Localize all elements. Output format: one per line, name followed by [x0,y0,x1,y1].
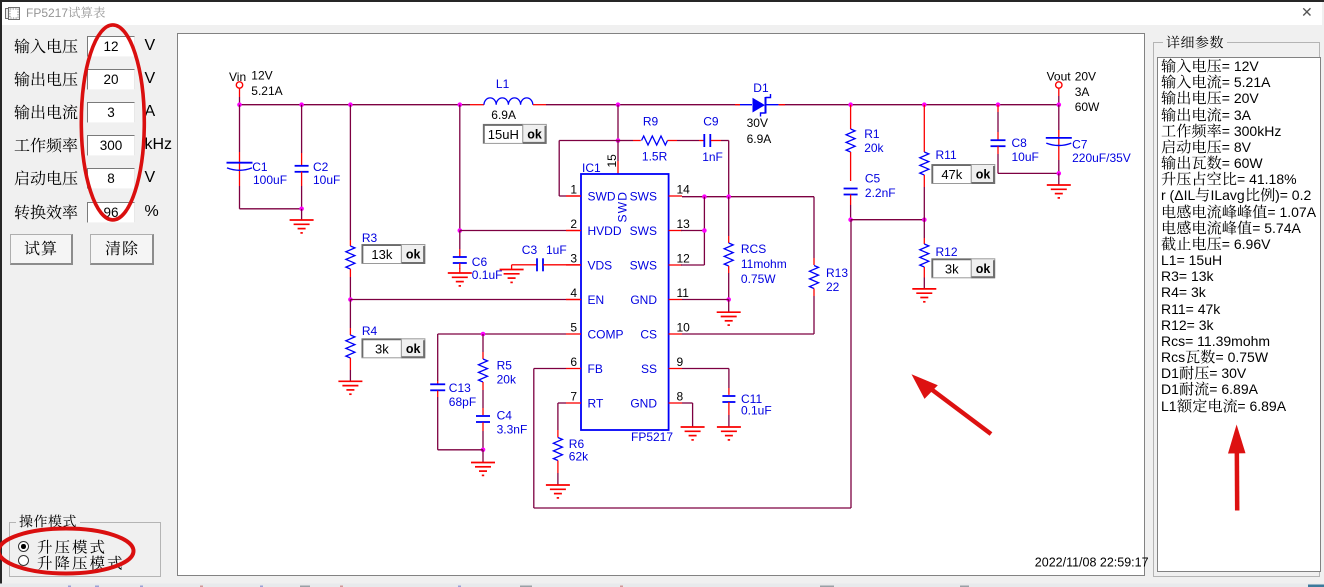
node Vin [236,82,242,88]
svg-text:HVDD: HVDD [588,224,622,238]
svg-text:Vin: Vin [229,70,246,84]
svg-text:1.5R: 1.5R [642,149,668,163]
svg-text:ok: ok [406,342,421,356]
svg-text:8: 8 [677,390,684,404]
resistor R6 [558,402,566,404]
svg-text:R3: R3 [362,231,378,245]
svg-text:GND: GND [630,293,657,307]
svg-text:R11: R11 [936,148,957,162]
wire SWS net pin14 [682,196,814,198]
svg-text:15uH: 15uH [488,127,519,142]
svg-text:3k: 3k [375,341,389,356]
svg-text:FP5217: FP5217 [631,430,673,444]
wire FB feedback loop [534,368,566,370]
ground under C2 [301,209,303,220]
svg-text:R13: R13 [826,266,848,280]
capacitor C9 [699,140,704,142]
svg-text:1uF: 1uF [546,243,567,257]
svg-text:C3: C3 [522,243,538,257]
wire SWS pins 13 12 tie [681,230,704,232]
svg-text:3A: 3A [1075,85,1090,99]
textbox L1 value [483,124,523,143]
svg-text:EN: EN [588,293,605,307]
svg-text:1nF: 1nF [702,150,723,164]
svg-text:2.2nF: 2.2nF [865,186,896,200]
app icon [5,7,20,20]
window border left and top [0,0,1324,2]
svg-text:C2: C2 [313,160,329,174]
svg-text:D1: D1 [753,81,769,95]
svg-text:2022/11/08 22:59:17: 2022/11/08 22:59:17 [1035,556,1149,570]
svg-text:20k: 20k [864,141,884,155]
svg-text:11: 11 [677,286,690,300]
svg-text:L1: L1 [496,77,510,91]
svg-text:C5: C5 [865,172,881,186]
window title bar [0,0,1322,25]
ground under R12 [912,288,936,290]
schematic canvas [177,33,1145,577]
left input rows [0,36,1,58]
ground under C4 [482,450,484,463]
svg-text:3k: 3k [945,261,959,276]
svg-text:RCS: RCS [741,242,766,256]
svg-text:ok: ok [976,168,991,182]
svg-text:13k: 13k [371,247,392,262]
svg-text:0.1uF: 0.1uF [741,404,772,418]
svg-text:15: 15 [605,154,619,168]
red ellipse around inputs [81,25,144,220]
svg-text:20V: 20V [1075,70,1096,84]
resistor R1 [848,102,853,107]
wire pin11 GND [682,299,729,301]
textbox R12 value [932,259,972,278]
svg-text:SWS: SWS [630,259,657,273]
wire EN to pin4 [350,299,566,301]
svg-text:R12: R12 [936,245,958,259]
resistor R5 [482,334,484,352]
wire SWD to pin15 [617,141,619,162]
svg-text:6.9A: 6.9A [747,132,772,146]
capacitor C4 [482,408,484,415]
svg-text:4: 4 [570,286,577,300]
svg-text:13: 13 [677,217,691,231]
svg-text:C1: C1 [252,160,268,174]
capacitor C7 [1058,105,1060,130]
svg-text:GND: GND [630,397,657,411]
resistor R9 [618,140,633,142]
capacitor C1 [239,105,241,152]
node pin13 junction [702,228,707,233]
resistor R3 [348,102,353,107]
svg-text:10uF: 10uF [313,173,340,187]
red arrow in right panel [1235,446,1240,511]
svg-text:C6: C6 [472,255,488,269]
svg-text:220uF/35V: 220uF/35V [1072,151,1131,165]
op-amp IC U1 FP5217 body and pins [581,174,669,430]
svg-text:3: 3 [570,252,577,266]
svg-text:30V: 30V [747,116,768,130]
textbox R4 value [362,339,402,358]
bottom window edge [0,584,1324,587]
buttons [10,234,73,265]
svg-text:0.1uF: 0.1uF [472,268,503,282]
svg-text:R5: R5 [497,359,513,373]
textbox R3 value [362,245,402,264]
node SWD junction [616,102,621,107]
svg-text:SS: SS [641,362,657,376]
svg-text:20k: 20k [497,373,517,387]
svg-text:47k: 47k [941,167,962,182]
svg-text:CS: CS [640,328,657,342]
wire main bus Vin to Vout [240,104,471,106]
svg-text:7: 7 [570,390,577,404]
resistor R13 [813,197,815,258]
svg-text:SWS: SWS [630,190,657,204]
svg-text:62k: 62k [569,450,589,464]
svg-text:IC1: IC1 [582,161,601,175]
node Vout [1056,82,1062,88]
wire HVDD to pin2 [460,230,566,232]
svg-text:C8: C8 [1012,136,1028,150]
capacitor C6 [459,231,461,250]
svg-text:68pF: 68pF [449,395,476,409]
textbox R11 value [932,165,972,184]
capacitor C2 [299,102,304,107]
resistor RCS [728,197,730,236]
svg-text:Vout: Vout [1047,70,1072,84]
svg-text:ok: ok [976,262,991,276]
inductor L1 [470,104,484,106]
svg-text:R1: R1 [864,127,880,141]
wire C9 to SWS net [728,141,730,197]
svg-text:11mohm: 11mohm [741,257,787,271]
ground under C11 [717,426,741,428]
svg-text:14: 14 [677,183,691,197]
svg-text:SWS: SWS [630,224,657,238]
ground under pin8 [681,426,705,428]
svg-text:SWD: SWD [588,190,616,204]
svg-text:60W: 60W [1075,100,1100,114]
ground under R6 [546,484,570,486]
node HVDD junction [458,102,463,107]
svg-text:R9: R9 [643,115,659,129]
ground at C3 [511,265,513,270]
wire COMP net [438,333,566,335]
svg-text:1: 1 [570,183,577,197]
capacitor C13 [437,334,439,381]
ground under R4 [338,380,362,382]
wire pin8 GND [682,402,693,404]
node EN junction [348,297,353,302]
ground under C6 [459,268,461,273]
wire SWD to pin1 [559,140,618,142]
svg-text:5.21A: 5.21A [251,84,282,98]
diode D1 [740,104,752,106]
svg-text:RT: RT [588,397,604,411]
right parameter group box [1153,42,1320,577]
svg-text:9: 9 [677,355,684,369]
svg-text:5: 5 [570,321,577,335]
svg-text:12V: 12V [251,69,272,83]
svg-text:C13: C13 [449,381,471,395]
svg-text:C4: C4 [497,409,513,423]
node FB divider junction [848,217,853,222]
svg-text:0.75W: 0.75W [741,272,776,286]
capacitor C8 [996,102,1001,107]
mode group box [9,522,161,577]
capacitor C3 [524,264,537,266]
capacitor C5 [844,188,858,190]
resistor R12 [923,220,925,238]
svg-text:C7: C7 [1072,138,1088,152]
svg-text:VDS: VDS [588,259,613,273]
red ellipse around radio buttons [0,529,134,574]
svg-text:COMP: COMP [588,328,624,342]
svg-text:22: 22 [826,280,840,294]
svg-text:3.3nF: 3.3nF [497,423,528,437]
svg-text:ok: ok [406,248,421,262]
red annotation arrow in canvas [925,385,991,435]
svg-text:FB: FB [588,362,603,376]
svg-text:ok: ok [527,127,542,141]
svg-text:10: 10 [677,321,691,335]
svg-text:2: 2 [570,217,577,231]
capacitor C11 [682,368,729,370]
svg-text:6: 6 [570,355,577,369]
resistor R11 [922,102,927,107]
svg-text:SWD: SWD [616,191,630,223]
svg-text:100uF: 100uF [253,173,287,187]
svg-text:10uF: 10uF [1012,150,1039,164]
svg-text:6.9A: 6.9A [491,108,516,122]
ground under C7 [1058,173,1060,184]
svg-text:C9: C9 [703,115,719,129]
svg-text:R4: R4 [362,324,378,338]
resistor R4 [349,300,351,329]
svg-text:12: 12 [677,252,691,266]
ground under RCS [728,300,730,313]
